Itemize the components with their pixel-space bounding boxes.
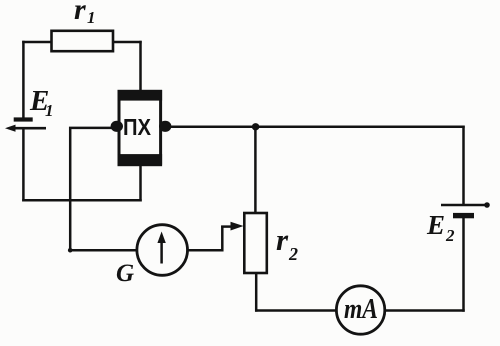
milliammeter mA <box>336 286 384 334</box>
wire from G right terminal to wiper corner <box>188 226 223 251</box>
svg-text:mA: mA <box>344 294 378 325</box>
svg-text:r: r <box>74 0 86 26</box>
ПХ left contact blob <box>111 121 123 132</box>
wire lower-left horizontal from E1 branch to ПХ bottom branch <box>22 199 142 202</box>
svg-text:2: 2 <box>288 244 298 264</box>
label E1 <box>29 85 54 120</box>
svg-text:1: 1 <box>87 8 96 27</box>
battery E1 <box>5 117 46 131</box>
svg-text:2: 2 <box>445 226 455 245</box>
wire vertical from junction down to r2 top <box>254 127 257 214</box>
svg-text:1: 1 <box>45 101 54 120</box>
galvanometer G <box>137 225 188 276</box>
label E2 <box>426 210 455 245</box>
wire left vertical from E1 bottom plate down to lower-left corner <box>22 129 25 202</box>
label r1 <box>74 0 96 27</box>
wiper arrow into r2 <box>221 222 243 231</box>
wire from ПХ right contact to E2 branch (top long horizontal) <box>166 126 465 129</box>
svg-text:ПХ: ПХ <box>123 114 152 140</box>
wire from mA right terminal to lower-right corner <box>385 309 465 312</box>
wire from r1 right terminal to top corner <box>113 41 142 44</box>
wire top-left horizontal from E1 branch to r1 left terminal <box>22 41 51 44</box>
svg-text:G: G <box>116 260 134 287</box>
potentiometer r2 <box>244 213 266 273</box>
svg-text:E: E <box>426 210 445 240</box>
wire from ПХ left contact going left then down to G <box>70 128 115 249</box>
wire left vertical from top corner down to E1 top plate <box>22 41 25 118</box>
wire right vertical from E2 top plate up to top corner <box>462 126 465 204</box>
wire vertical from ПХ bottom down to lower horizontal <box>139 163 142 202</box>
wire from r2 bottom down to lower-right horizontal <box>255 273 258 312</box>
wire right vertical from corner up to E2 bottom plate <box>462 216 465 312</box>
battery E2 <box>441 202 490 218</box>
wire bottom horizontal from r2 branch to mA left terminal <box>255 309 337 312</box>
wire vertical down into ПХ top <box>139 41 142 93</box>
ПХ right contact blob <box>159 121 171 132</box>
label r2 <box>276 222 298 264</box>
hall probe ПХ <box>118 90 163 165</box>
svg-text:r: r <box>276 222 289 257</box>
node junction dot <box>252 123 259 130</box>
resistor r1 <box>52 31 114 51</box>
wire horizontal into galvanometer G left terminal <box>68 248 137 253</box>
